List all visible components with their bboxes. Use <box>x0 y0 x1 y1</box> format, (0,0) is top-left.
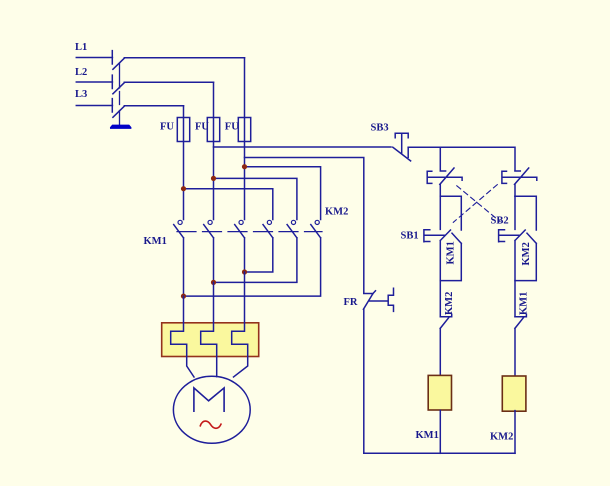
pushbutton SB2 NC contact (left branch) <box>427 147 462 196</box>
contact KM2 aux NO (latch) <box>515 233 536 280</box>
wire control top <box>408 147 515 171</box>
contactor KM2 main contact 6 <box>184 220 321 296</box>
wire latch branch top (right) <box>515 196 536 230</box>
coil KM1 <box>428 375 451 410</box>
wire phase L3 vertical <box>183 106 185 220</box>
switch QS pole 3 <box>112 99 183 118</box>
svg-text:L1: L1 <box>75 42 87 53</box>
pushbutton SB1 (start fwd, NO) <box>424 196 451 317</box>
contactor KM2 main contact 4 <box>245 220 273 272</box>
contactor KM2 main contact 5 <box>214 220 297 282</box>
wire KM2 feed D <box>214 178 297 219</box>
svg-text:KM2: KM2 <box>490 432 513 443</box>
pushbutton SB2 (start rev, NO) <box>499 196 526 317</box>
wire KM2 feed C <box>245 167 321 220</box>
wire motor lead 1 <box>187 357 194 378</box>
wire motor feed b <box>213 282 215 322</box>
svg-text:KM2: KM2 <box>521 242 532 265</box>
wire KM2 coil to bus <box>514 411 516 454</box>
wire motor lead 2 <box>216 357 218 377</box>
fuse FU3 <box>238 118 250 142</box>
motor M letter <box>194 388 224 411</box>
svg-text:FR: FR <box>344 297 358 308</box>
svg-text:L3: L3 <box>75 89 87 100</box>
node junction L2-D <box>211 176 216 181</box>
wire motor feed c <box>183 296 185 323</box>
wire L3 input <box>76 105 112 107</box>
wire L2 input <box>76 81 112 83</box>
wire motor feed a <box>244 272 246 323</box>
switch QS pole 1 <box>112 51 244 70</box>
svg-text:FU: FU <box>225 122 239 133</box>
wire control tap B <box>245 158 364 294</box>
fuse FU2 <box>207 118 219 142</box>
pushbutton SB3 (stop, NC) <box>393 133 411 161</box>
node junction motor phase b <box>211 280 216 285</box>
thermal relay FR heater element 3 <box>232 323 248 357</box>
contactor KM1 main contact 1 <box>174 220 184 296</box>
wire KM2 feed E <box>184 189 273 220</box>
contact KM2 NC interlock (left branch) <box>440 314 452 376</box>
contact KM1 NC interlock (right branch) <box>515 314 527 376</box>
svg-text:L2: L2 <box>75 67 87 78</box>
thermal relay FR heater element 1 <box>171 323 187 357</box>
svg-text:KM1: KM1 <box>144 236 167 247</box>
wire L1 input <box>76 57 112 59</box>
thermal relay FR heater box <box>162 323 259 357</box>
wire motor lead 3 <box>234 357 248 378</box>
thermal relay FR heater element 2 <box>201 323 217 357</box>
mechanical link SB1 (dashed cross) <box>453 185 497 223</box>
wire bottom bus <box>364 452 515 454</box>
pushbutton SB1 NC contact (right branch) <box>502 168 537 196</box>
coil KM2 <box>502 376 526 411</box>
wire KM1 coil to bus <box>439 410 441 453</box>
svg-text:FU: FU <box>195 122 209 133</box>
switch QS pole 2 <box>112 75 213 94</box>
svg-text:KM1: KM1 <box>446 241 457 264</box>
contactor KM1 main contact 2 <box>204 220 214 282</box>
svg-text:KM1: KM1 <box>519 292 530 315</box>
switch QS linkage <box>119 64 121 125</box>
fuse FU1 <box>177 118 189 142</box>
node junction motor phase a <box>242 269 247 274</box>
contactor KM1 main contact 3 <box>235 220 245 272</box>
motor M circle <box>173 376 250 443</box>
svg-text:KM1: KM1 <box>416 430 439 441</box>
wire phase L1 vertical <box>244 58 246 220</box>
svg-text:SB1: SB1 <box>401 231 419 242</box>
svg-text:FU: FU <box>160 122 174 133</box>
node junction L3-E <box>181 186 186 191</box>
svg-text:KM2: KM2 <box>325 207 348 218</box>
wire latch branch top (left) <box>440 196 461 230</box>
contact KM1 aux NO (latch) <box>440 233 461 280</box>
svg-text:KM2: KM2 <box>444 292 455 315</box>
wire control tap A <box>214 146 392 148</box>
node junction L1-C <box>242 164 247 169</box>
linkage KM1-KM2 main contacts <box>177 231 322 233</box>
wire phase L2 vertical <box>213 82 215 219</box>
svg-text:SB3: SB3 <box>371 123 389 134</box>
motor tilde <box>200 421 221 428</box>
switch QS handle bar <box>110 125 131 129</box>
thermal relay FR NC contact <box>363 288 393 453</box>
mechanical link SB2 (dashed cross) <box>457 186 500 222</box>
node junction motor phase c <box>181 294 186 299</box>
svg-text:SB2: SB2 <box>491 216 509 227</box>
